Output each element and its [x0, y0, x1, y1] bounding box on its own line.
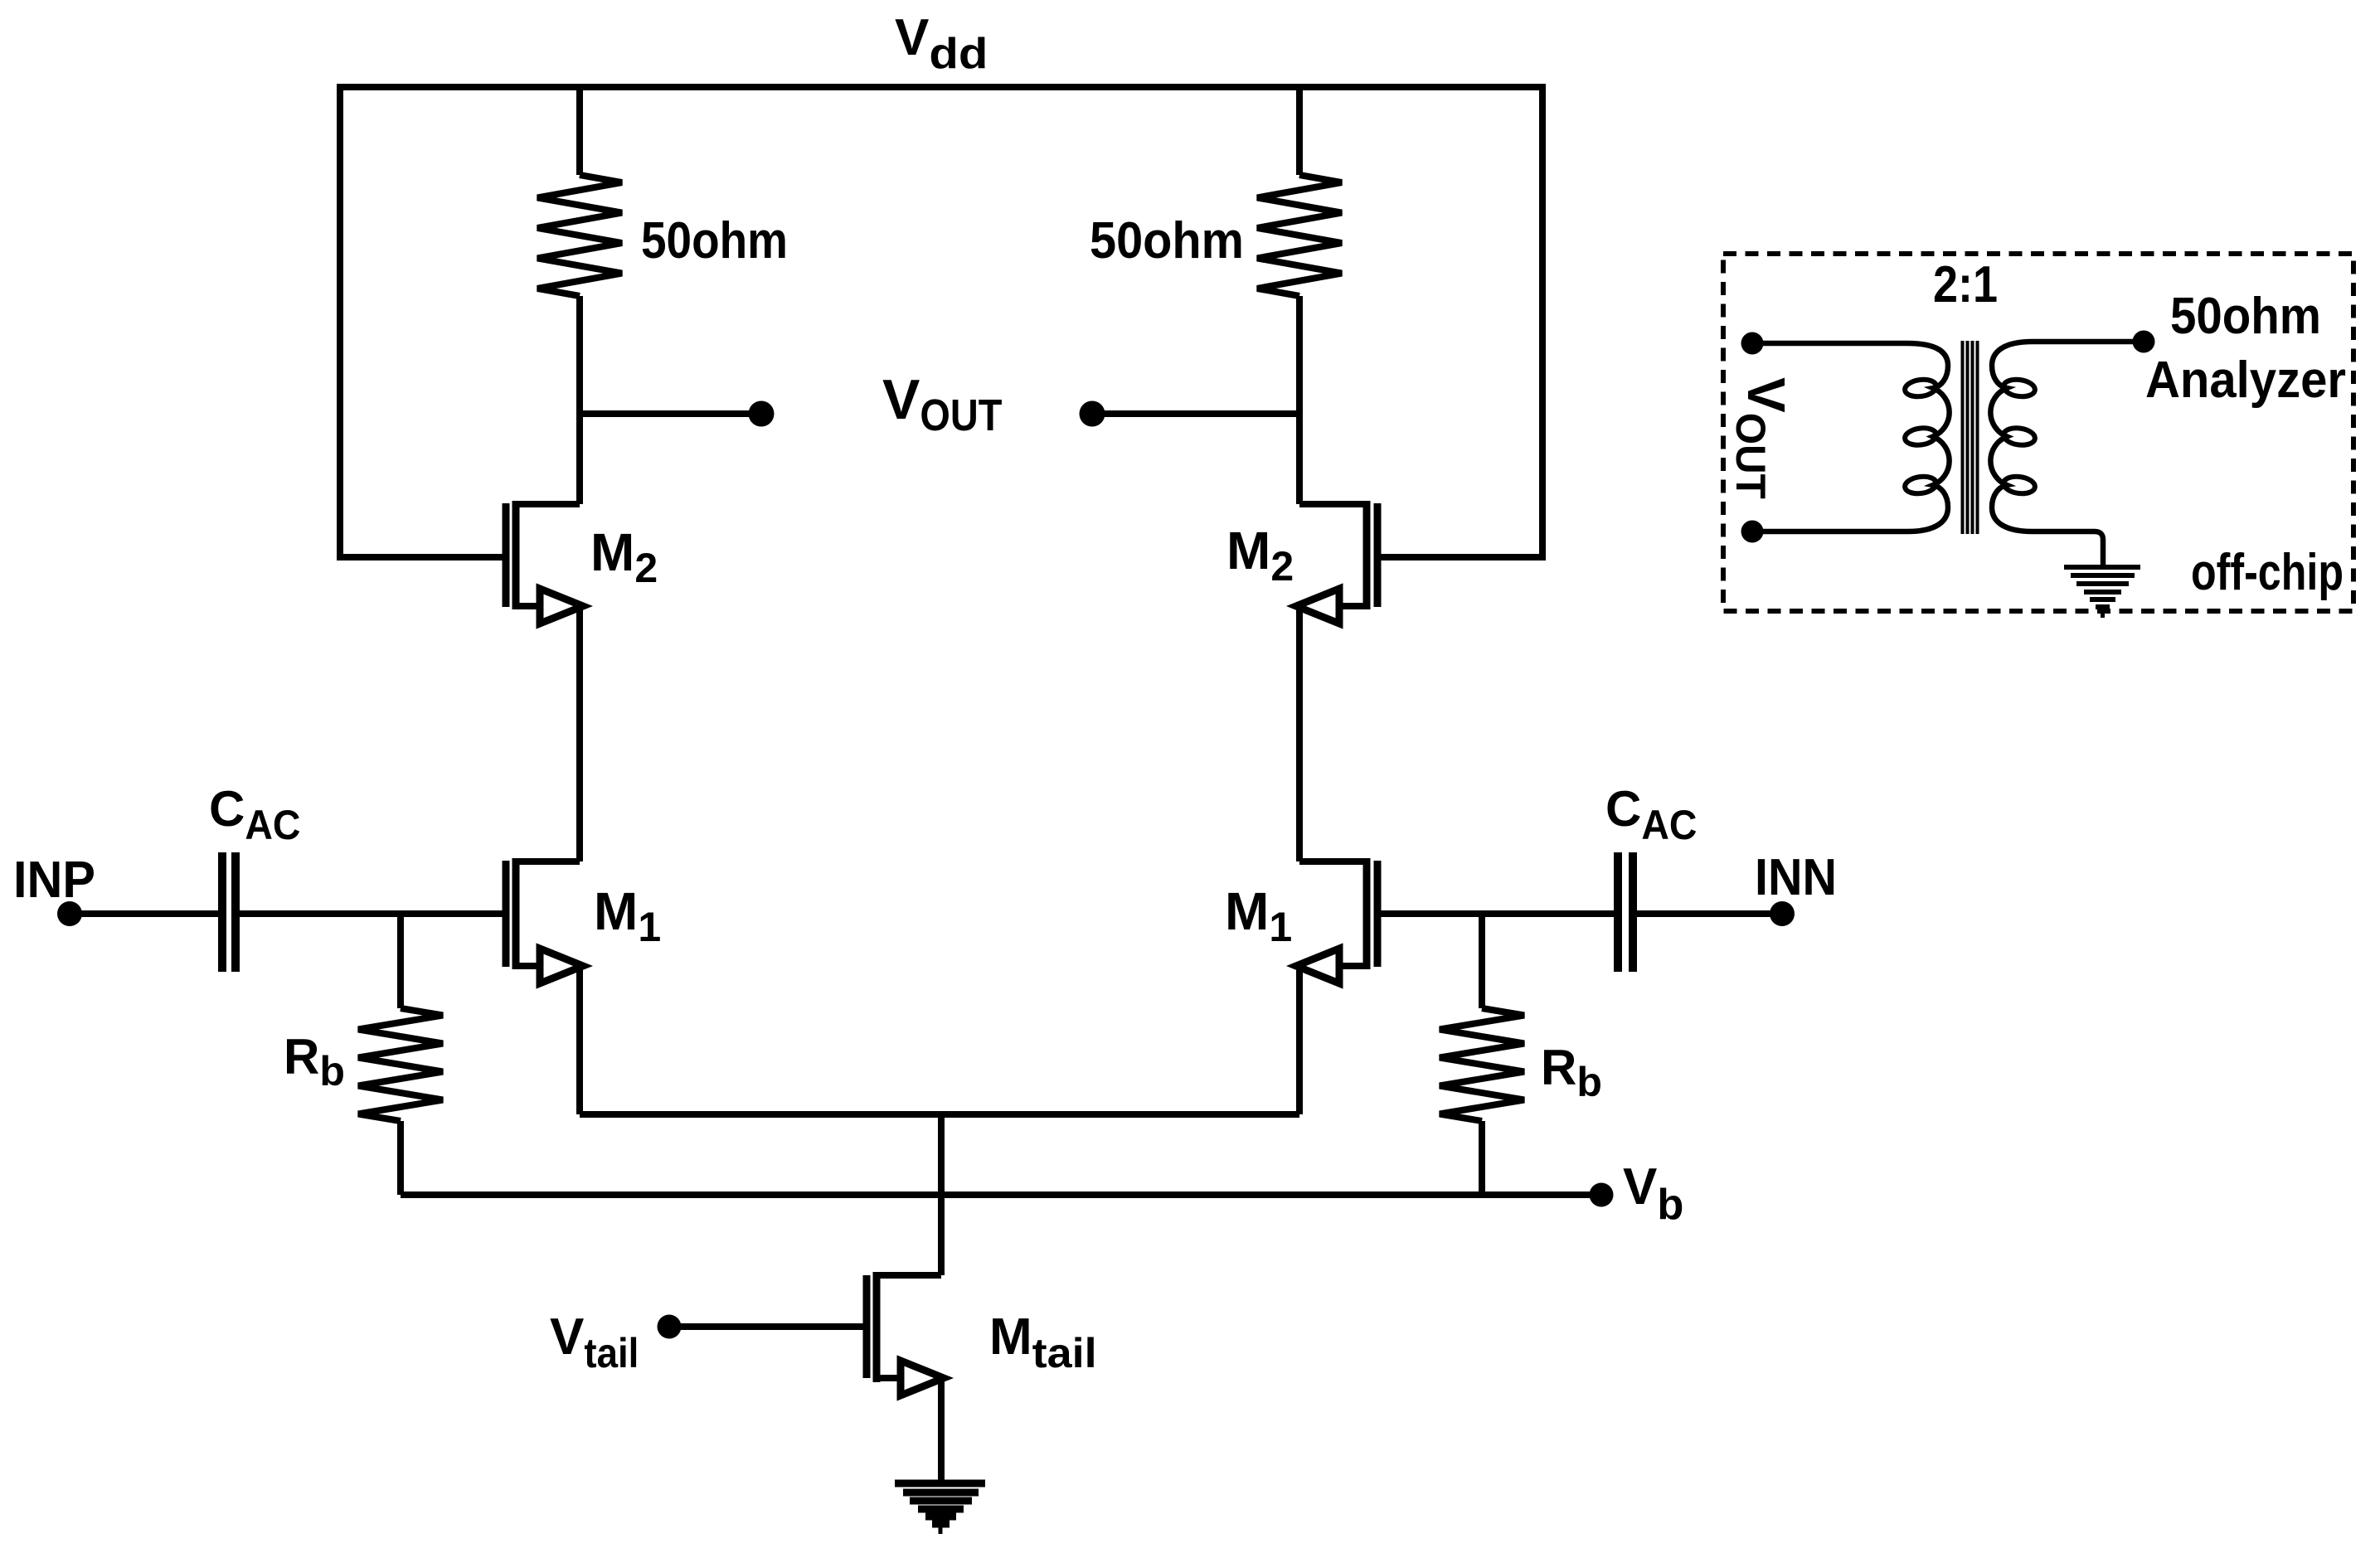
wire Vtail to Mtail gate: [669, 1323, 863, 1330]
transistor Mtail: source arrow: [901, 1361, 944, 1395]
transistor M1 left: channel bar: [512, 858, 520, 969]
ground main: tip tick: [939, 1527, 943, 1534]
wire right column: resistor bottom to M2 drain: [1296, 296, 1303, 504]
svg-text:2:1: 2:1: [1933, 256, 1998, 313]
resistor 50ohm left zigzag: [537, 175, 622, 296]
node Vtail terminal dot: [658, 1315, 682, 1339]
wire VOUT tap left: [580, 410, 749, 417]
transistor M2 right: source arrow: [1296, 589, 1339, 624]
ground off-chip: bar 2: [2071, 573, 2135, 578]
transistor M2 right: source stub: [1341, 603, 1367, 609]
wire Mtail source to ground: [938, 1378, 945, 1483]
transistor M1 right: source arrow: [1296, 949, 1339, 983]
svg-text:Analyzer: Analyzer: [2145, 352, 2346, 409]
ground main: bar 4: [918, 1506, 964, 1513]
ground off-chip: bar 5: [2090, 597, 2115, 602]
wire INP to CAC left: [70, 910, 218, 917]
ground main: bar 6: [932, 1521, 950, 1528]
node transformer primary top terminal dot: [1741, 332, 1764, 355]
transformer core line 3: [1971, 341, 1974, 534]
transistor M2 left: source arrow: [540, 589, 583, 624]
wire CAC right to M1 right gate: [1377, 910, 1614, 917]
ground main: bar 5: [925, 1513, 956, 1521]
svg-text:50ohm: 50ohm: [2170, 288, 2321, 345]
node INN terminal dot: [1770, 901, 1795, 926]
wire M1 right source down to tail line: [1296, 966, 1303, 1114]
inductor primary ear 1: [1904, 377, 1937, 398]
inductor primary ear 3: [1904, 474, 1937, 495]
transistor M1 left: source arrow: [540, 949, 583, 983]
ground off-chip: bar 3: [2076, 581, 2129, 586]
off-chip dashed boundary box: [1723, 254, 2353, 611]
transistor M2 left: source stub: [516, 603, 542, 609]
inductor transformer secondary winding: [1990, 342, 2144, 567]
capacitor CAC left: plate 2: [231, 852, 240, 972]
ground main: bar 2: [903, 1489, 979, 1497]
node transformer secondary top terminal dot (50ohm Analyzer): [2133, 331, 2155, 353]
transistor M2 right: drain stub: [1299, 501, 1367, 507]
inductor secondary ear 3: [2003, 474, 2036, 495]
wire gate node down to Rb left: [397, 914, 404, 1008]
node VOUT left dot: [749, 401, 775, 427]
transistor M2 left: channel bar: [512, 501, 520, 609]
transistor Mtail: channel bar: [873, 1272, 881, 1382]
capacitor CAC left: plate 1: [218, 852, 226, 972]
transistor Mtail: drain stub: [877, 1272, 941, 1279]
capacitor CAC right: plate 1: [1629, 852, 1637, 972]
svg-text:INN: INN: [1755, 849, 1837, 906]
transistor M1 right: drain stub: [1299, 858, 1367, 865]
wire Vdd rail and outer gate loop: [340, 87, 1542, 557]
inductor secondary ear 1: [2003, 377, 2036, 398]
wire M2 left source to M1 left drain: [576, 606, 583, 861]
inductor transformer primary winding: [1752, 343, 1950, 531]
transistor M1 left: source stub: [516, 963, 542, 969]
resistor 50ohm right: top lead: [1296, 87, 1303, 175]
transistor M1 right: channel bar: [1363, 858, 1371, 969]
wire M2 right source to M1 right drain: [1296, 606, 1303, 861]
resistor Rb right zigzag: [1440, 1008, 1524, 1121]
ground main: bar 1: [895, 1480, 985, 1487]
wire Vb line: [401, 1191, 1590, 1198]
transistor M1 left: gate bar: [503, 861, 510, 967]
transistor M2 right: channel bar: [1363, 501, 1371, 609]
node INP terminal dot: [57, 901, 82, 926]
resistor Rb left zigzag: [358, 1008, 443, 1121]
inductor secondary ear 2: [2003, 426, 2036, 447]
svg-text:50ohm: 50ohm: [1090, 212, 1244, 269]
resistor 50ohm left: top lead: [576, 87, 583, 175]
inductor primary ear 2: [1904, 426, 1937, 447]
wire CAC left to M1 left gate: [240, 910, 506, 917]
transformer core line 4: [1976, 341, 1979, 534]
transformer core line 2: [1966, 341, 1970, 534]
transistor M2 right: gate bar: [1374, 503, 1382, 607]
transistor Mtail: gate bar: [863, 1275, 871, 1378]
wire M1 left source down to tail line: [576, 966, 583, 1114]
wire left column: resistor bottom to M2 drain (through VOUT tap): [576, 296, 583, 504]
wire Rb left bottom lead: [397, 1121, 404, 1195]
node VOUT right dot: [1080, 401, 1105, 427]
node Vb terminal dot: [1590, 1183, 1614, 1207]
transistor M1 left: drain stub: [516, 858, 580, 865]
ground off-chip: bar 4: [2084, 590, 2121, 595]
wire tail line joining M1 sources: [580, 1111, 1299, 1118]
resistor 50ohm right zigzag: [1257, 175, 1342, 296]
ground off-chip: tip tick: [2101, 613, 2105, 618]
node transformer primary bottom terminal dot: [1741, 521, 1764, 543]
ground off-chip: bar 6: [2096, 604, 2110, 609]
wire tail center tap down to Mtail drain: [938, 1114, 945, 1275]
svg-text:off-chip: off-chip: [2191, 544, 2344, 601]
transistor M1 right: source stub: [1341, 963, 1367, 969]
wire Rb right bottom lead: [1479, 1121, 1485, 1195]
transistor M2 left: gate bar: [503, 503, 510, 607]
svg-text:INP: INP: [13, 852, 95, 909]
transformer core line 1: [1961, 341, 1965, 534]
transistor M1 right: gate bar: [1374, 861, 1382, 967]
ground main: bar 3: [910, 1497, 972, 1505]
wire VOUT tap right: [1105, 410, 1299, 417]
wire INN to CAC right: [1637, 910, 1782, 917]
wire gate node down to Rb right: [1479, 914, 1485, 1008]
svg-text:50ohm: 50ohm: [641, 212, 788, 269]
transistor Mtail: source stub: [877, 1375, 903, 1381]
capacitor CAC right: plate 2: [1614, 852, 1622, 972]
ground off-chip: bar 1: [2064, 565, 2140, 570]
transistor M2 left: drain stub: [516, 501, 580, 507]
